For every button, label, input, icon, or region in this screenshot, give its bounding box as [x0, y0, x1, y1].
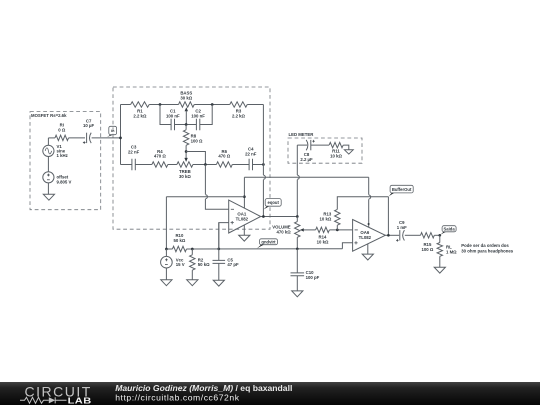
- resistor R1 2.2k: [131, 102, 150, 119]
- CircuitLab logo: [20, 384, 92, 405]
- svg-text:LAB: LAB: [68, 397, 92, 405]
- node R2 junction: [191, 248, 194, 251]
- wire: [48, 137, 55, 139]
- ground: [161, 280, 172, 286]
- node A junction: [159, 103, 162, 106]
- svg-text:50 kΩ: 50 kΩ: [173, 238, 185, 243]
- node volume junction: [296, 215, 299, 218]
- wire left vertical: [120, 105, 122, 165]
- resistor RL 1M: [437, 243, 457, 257]
- node BufferOut junction: [387, 234, 390, 237]
- node flag BufferOut: [388, 185, 413, 196]
- wire: [434, 234, 440, 236]
- wire: [329, 229, 352, 231]
- source V1 sine 1kHz: [43, 144, 68, 158]
- ground: [187, 280, 198, 286]
- volume wiper arrow: [300, 228, 316, 231]
- svg-text:30 kΩ: 30 kΩ: [179, 174, 191, 179]
- source offset 0.805V: [43, 172, 72, 185]
- dashed box tone control: [113, 87, 270, 229]
- node bass wiper junction: [185, 123, 188, 126]
- svg-text:30 ohm para headphones: 30 ohm para headphones: [461, 248, 513, 253]
- svg-text:470 Ω: 470 Ω: [154, 154, 166, 159]
- svg-text:TL082: TL082: [236, 216, 249, 221]
- svg-text:Saida: Saida: [444, 226, 456, 231]
- wire: [439, 235, 441, 242]
- potentiometer BASS 30k: [179, 90, 195, 107]
- wire R8 to inverting node: [186, 152, 205, 165]
- svg-text:100 nF: 100 nF: [166, 113, 180, 118]
- svg-text:10 kΩ: 10 kΩ: [319, 217, 331, 222]
- node output junction: [262, 215, 265, 218]
- node flag eqout: [263, 199, 281, 210]
- wire: [343, 145, 349, 150]
- wire OA6 ground pin: [367, 244, 369, 254]
- svg-text:2.2 kΩ: 2.2 kΩ: [232, 113, 246, 118]
- dashed box input source MOSFET Rs=2.6k: [30, 112, 101, 210]
- wire: [247, 104, 263, 106]
- svg-text:LED METER: LED METER: [289, 132, 315, 137]
- ground: [344, 150, 353, 154]
- wire BufferOut vertical: [387, 197, 389, 236]
- svg-text:1 mF: 1 mF: [397, 225, 407, 230]
- svg-text:470 Ω: 470 Ω: [218, 154, 230, 159]
- svg-text:Mauricio Godinez (Morris_M) /: Mauricio Godinez (Morris_M) / eq baxanda…: [115, 383, 292, 393]
- svg-text:TL082: TL082: [359, 235, 372, 240]
- wire bias rail to OA1: [166, 196, 244, 198]
- wire: [218, 223, 220, 261]
- ground: [43, 194, 54, 200]
- node flag Saida: [440, 226, 456, 236]
- wire: [69, 137, 86, 139]
- ground: [362, 254, 373, 260]
- wire: [405, 234, 421, 236]
- wire R13 top feedback: [337, 197, 388, 210]
- node B junction: [211, 103, 214, 106]
- wire hop: [263, 175, 265, 179]
- wire: [194, 104, 230, 106]
- potentiometer TREB 30k: [177, 162, 193, 179]
- svg-text:100 nF: 100 nF: [191, 113, 205, 118]
- svg-text:47 pF: 47 pF: [227, 262, 239, 267]
- wire feedback vertical: [262, 105, 264, 217]
- resistor R4 470 Ohm: [152, 149, 168, 167]
- svg-text:0 Ω: 0 Ω: [58, 127, 66, 132]
- resistor R15 100 Ohm: [421, 233, 435, 252]
- wire OA1 output: [261, 216, 298, 218]
- wire OA1 vplus pin: [243, 177, 245, 208]
- svg-text:22 nF: 22 nF: [245, 152, 257, 157]
- node C10 junction: [296, 247, 299, 250]
- capacitor C1 100nF: [166, 108, 180, 130]
- wire: [336, 225, 338, 230]
- node R13 junction: [336, 229, 339, 232]
- svg-text:10 kΩ: 10 kΩ: [317, 239, 329, 244]
- wire inverting input: [205, 165, 228, 210]
- wire: [191, 249, 193, 255]
- ground: [292, 291, 303, 297]
- wire LED meter tap: [296, 145, 298, 216]
- node bias junction: [243, 195, 246, 198]
- capacitor C2 100nF: [191, 108, 205, 130]
- wire: [185, 145, 187, 158]
- wire: [297, 144, 307, 146]
- svg-text:9.805 V: 9.805 V: [57, 180, 72, 185]
- wire in: [92, 137, 121, 139]
- wire: [311, 144, 329, 146]
- op-amp OA6 TL082: [353, 220, 386, 252]
- node Vcc junction: [165, 248, 168, 251]
- wire: [47, 138, 49, 145]
- svg-text:2.2 µF: 2.2 µF: [300, 157, 313, 162]
- svg-text:http://circuitlab.com/cc672nk: http://circuitlab.com/cc672nk: [115, 393, 240, 403]
- resistor R2 50k: [190, 255, 211, 270]
- wire hop: [205, 195, 207, 199]
- node OA6 pin dot: [368, 223, 370, 225]
- wire: [135, 164, 152, 166]
- wire: [296, 276, 298, 291]
- node C5 junction: [217, 248, 220, 251]
- svg-text:10 µF: 10 µF: [83, 123, 94, 128]
- resistor R6 470 Ohm: [216, 149, 232, 167]
- svg-text:15 V: 15 V: [176, 262, 185, 267]
- op-amp OA1 TL082: [229, 200, 261, 233]
- footer title text: [115, 383, 292, 403]
- wire: [296, 217, 298, 222]
- resistor R13 10k: [319, 209, 340, 225]
- wire bias vertical left: [165, 197, 167, 249]
- svg-text:100 pF: 100 pF: [306, 275, 320, 280]
- wire: [218, 263, 220, 280]
- wire: [191, 270, 193, 280]
- node R8 bottom junction: [185, 150, 188, 153]
- svg-text:470 kΩ: 470 kΩ: [276, 229, 291, 234]
- svg-text:BufferOut: BufferOut: [392, 187, 412, 192]
- wire: [121, 104, 131, 106]
- wire OA6 vplus pin: [368, 177, 370, 227]
- svg-text:eqout: eqout: [267, 200, 279, 205]
- wire: [47, 183, 49, 194]
- svg-text:30 kΩ: 30 kΩ: [180, 95, 192, 100]
- node inverting junction: [204, 163, 207, 166]
- node flag gndvirt: [257, 239, 278, 249]
- resistor R3 2.2k: [230, 102, 247, 119]
- wire bottom rail left: [121, 164, 132, 166]
- capacitor C5 47pF: [213, 257, 239, 267]
- dashed box LED METER: [288, 132, 362, 163]
- wire: [232, 164, 249, 166]
- wire: [253, 164, 264, 166]
- resistor Ri 0 Ohm: [55, 122, 69, 140]
- ground: [239, 235, 250, 241]
- wire bias top rail: [244, 176, 368, 178]
- svg-text:50 kΩ: 50 kΩ: [198, 262, 210, 267]
- node Saida junction: [438, 234, 441, 237]
- svg-text:1 kHz: 1 kHz: [57, 153, 68, 158]
- svg-text:2.2 kΩ: 2.2 kΩ: [133, 113, 147, 118]
- wire: [168, 164, 177, 166]
- wire: [175, 124, 197, 126]
- treb wiper arrow: [184, 158, 187, 162]
- wire OA1 ground pin: [243, 225, 245, 235]
- wire OA6 noninverting: [342, 243, 352, 249]
- wire: [439, 256, 441, 267]
- wire: [165, 249, 167, 257]
- node feedback junction: [262, 163, 265, 166]
- svg-text:10 kΩ: 10 kΩ: [330, 153, 342, 158]
- wire noninverting input: [219, 223, 229, 249]
- svg-text:Pode ser da ordem dos: Pode ser da ordem dos: [461, 243, 509, 248]
- ground: [213, 280, 224, 286]
- annotation headphones note: [461, 243, 513, 253]
- wire: [47, 157, 49, 172]
- potentiometer VOLUME 470k: [272, 222, 300, 238]
- wire hop: [369, 195, 371, 199]
- node flag in: [106, 126, 117, 138]
- capacitor C7 10uF: [83, 118, 95, 144]
- capacitor C4 22nF: [245, 147, 257, 171]
- wire: [185, 125, 187, 130]
- wire node B drop: [200, 105, 212, 125]
- svg-text:100 Ω: 100 Ω: [421, 247, 433, 252]
- bass wiper arrow: [185, 107, 188, 124]
- capacitor C10 100pF: [291, 270, 320, 280]
- wire node A drop: [160, 105, 171, 125]
- wire: [193, 164, 217, 166]
- resistor R11 10k: [329, 142, 343, 158]
- wire OA6 output: [385, 234, 399, 236]
- wire: [149, 104, 178, 106]
- wire virtual ground rail: [166, 248, 342, 250]
- resistor R10 50k: [172, 233, 186, 252]
- svg-text:100 Ω: 100 Ω: [191, 139, 203, 144]
- capacitor C8 2.2uF: [300, 140, 315, 162]
- footer bar: [0, 382, 540, 405]
- wire: [296, 249, 298, 273]
- source Vcc 15V: [161, 256, 185, 268]
- capacitor C9 1mF: [396, 220, 407, 242]
- wire hop: [297, 175, 299, 179]
- svg-text:1 MΩ: 1 MΩ: [446, 249, 457, 254]
- svg-text:22 nF: 22 nF: [128, 150, 140, 155]
- svg-text:MOSFET Rs=2.6k: MOSFET Rs=2.6k: [31, 113, 67, 118]
- ground: [434, 267, 445, 273]
- svg-text:gndvirt: gndvirt: [261, 239, 276, 244]
- node junction in: [119, 137, 122, 140]
- wire: [296, 237, 298, 249]
- wire: [165, 268, 167, 280]
- resistor R14 10k: [316, 227, 330, 244]
- resistor R8 100 Ohm: [183, 130, 203, 146]
- capacitor C3 22nF: [128, 145, 140, 171]
